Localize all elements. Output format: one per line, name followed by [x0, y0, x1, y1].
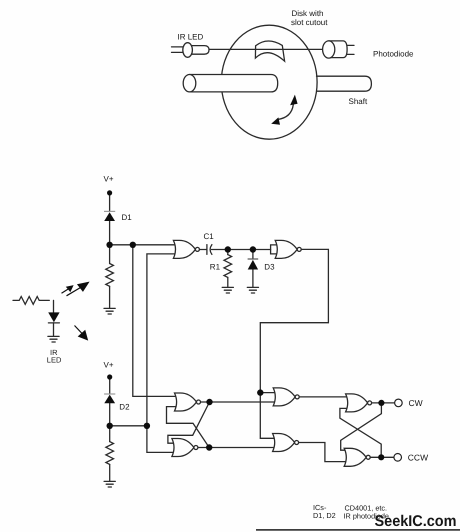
IR LED subcircuit: left stub + series resistor [13, 297, 49, 305]
NOR gate U2b (latch) [172, 439, 198, 457]
wire G3 input B cross-coupling to G4 output [167, 407, 210, 448]
NOR gate U4b (output latch CCW) [344, 448, 370, 466]
svg-text:IR LED: IR LED [178, 32, 204, 41]
ground (D3) [247, 287, 258, 293]
svg-text:slot cutout: slot cutout [291, 18, 328, 27]
wire G4 output to G6 input B [198, 447, 275, 449]
wire G8 input A cross-coupling to G7 output [341, 403, 382, 450]
ground (R1) [222, 287, 233, 293]
arrow small upper [62, 289, 70, 294]
arrow lower [75, 326, 83, 335]
NOR gate U1a [173, 240, 199, 258]
light emission arrows of IR LED [62, 283, 89, 340]
wire resistor to LED [53, 300, 55, 312]
wire G6 output to G8 input B [299, 443, 347, 462]
wire G2 output feedback run to G5/G6 inputs [260, 249, 328, 438]
wire G7 input B cross-coupling to G8 output [340, 408, 381, 457]
photodiode body [329, 41, 347, 58]
node G8 output [378, 454, 384, 460]
ground (D1 branch) [104, 308, 115, 314]
wire resistor to ground (D2 branch) [109, 464, 111, 481]
LED D (emitting) triangle [48, 312, 59, 322]
capacitor C1 right plate (curved) [210, 245, 212, 255]
wire C1 to G2 input [211, 249, 270, 251]
wire D3 to ground [252, 270, 254, 288]
node G7 output [378, 400, 384, 406]
wire G8 output to CCW terminal [370, 456, 394, 458]
node D1 line tap [130, 242, 136, 248]
node D1/R junction [106, 242, 112, 248]
node V+ (lower) wire [109, 378, 111, 394]
svg-text:CCW: CCW [408, 452, 428, 462]
resistor (D1 load) [106, 264, 114, 287]
ground (IR LED) [48, 336, 59, 342]
light beam wire from IR LED to photodiode [209, 48, 323, 50]
resistor (D2 load) [106, 442, 114, 465]
disk (encoder disk ellipse) [221, 25, 317, 139]
arrow large upper [67, 288, 81, 296]
wire R1 node [227, 250, 229, 255]
svg-text:Disk with: Disk with [292, 9, 324, 18]
wire G5 output to G7 input A [299, 396, 348, 398]
wire D1 cathode to node/resistor [109, 221, 111, 264]
wire G7 output to CW terminal [372, 402, 395, 404]
svg-text:SeekIC.com: SeekIC.com [375, 513, 457, 530]
NOR gate U3a [273, 388, 299, 406]
slot cutout on disk [255, 41, 284, 61]
labels of mechanical drawing [178, 9, 415, 106]
svg-text:V+: V+ [104, 175, 114, 184]
wire resistor to ground [109, 286, 111, 308]
photodiode leads [347, 44, 354, 46]
wire LED to ground [53, 323, 55, 336]
shaft left end cap [183, 75, 196, 92]
wire G4 input A cross-coupling to G3 output [168, 402, 210, 443]
svg-text:CW: CW [409, 398, 423, 408]
diode D3 cathode bar [248, 258, 259, 260]
rotation arrow (curved, two heads) [278, 105, 294, 120]
wire G3 output to G5 input B [201, 401, 276, 403]
node V+ upper dot [107, 190, 112, 195]
NOR gate U2a (latch) [175, 393, 201, 411]
watermark underline [256, 529, 460, 531]
svg-text:D1: D1 [122, 213, 133, 222]
svg-text:V+: V+ [104, 361, 114, 370]
G2 input tie bracket [271, 245, 278, 254]
wire node to G5 input A [260, 392, 275, 394]
wire D3 anode [252, 250, 254, 260]
node V+ lower dot [107, 374, 112, 379]
diode D3 [248, 260, 258, 270]
ground (D2 branch) [104, 481, 115, 487]
IR LED (top drawing) leads [172, 46, 184, 48]
node C1/R1 [225, 246, 231, 252]
wire G1 output to C1 [199, 249, 206, 251]
wire node to gate G1 input A [110, 244, 177, 246]
NOR gate U3b [273, 434, 299, 452]
wire R1 to ground [227, 277, 229, 287]
wire D2 node to latch node [110, 425, 147, 427]
node V+ (upper) wire [109, 194, 111, 211]
rotation arrow head bottom-left [271, 117, 280, 124]
rotation arrow head top [290, 95, 298, 106]
wire long vertical from D1 node to G3 input A [133, 245, 178, 397]
svg-text:D1, D2: D1, D2 [313, 511, 336, 520]
svg-text:LED: LED [47, 356, 62, 365]
svg-text:D3: D3 [264, 262, 275, 271]
svg-text:R1: R1 [210, 262, 221, 271]
capacitor C1 left plate [206, 245, 208, 255]
diode D2 cathode bar [104, 393, 115, 395]
diode D1 (photodiode) [104, 212, 115, 221]
LED cathode bar [48, 322, 59, 324]
svg-text:D2: D2 [119, 403, 130, 412]
photodiode lens ellipse [323, 41, 335, 58]
node D3 [250, 246, 256, 252]
diode D2 (photodiode) [104, 395, 115, 404]
NOR gate U4a (output latch CW) [346, 394, 372, 412]
node latch feed [144, 423, 150, 429]
IR LED (top drawing) lens ellipse [183, 43, 193, 58]
svg-text:Photodiode: Photodiode [373, 50, 414, 59]
terminal CW [395, 399, 403, 407]
resistor R1 [224, 255, 232, 278]
svg-text:Shaft: Shaft [349, 97, 368, 106]
NOR gate U1b (inverter) [275, 240, 301, 258]
IR LED (top drawing) body [192, 46, 209, 55]
shaft left section [190, 75, 278, 92]
svg-text:C1: C1 [204, 232, 215, 241]
node D2/R junction [107, 423, 113, 429]
node G4 output [206, 444, 212, 450]
diode D1 cathode bar [104, 210, 115, 212]
shaft right section [317, 76, 372, 91]
wire D2 cathode to node [109, 403, 111, 441]
wire G1 input B down-run [147, 254, 177, 453]
node G3 output [206, 399, 212, 405]
terminal CCW [394, 454, 402, 462]
node G2 feedback tap [257, 389, 263, 395]
